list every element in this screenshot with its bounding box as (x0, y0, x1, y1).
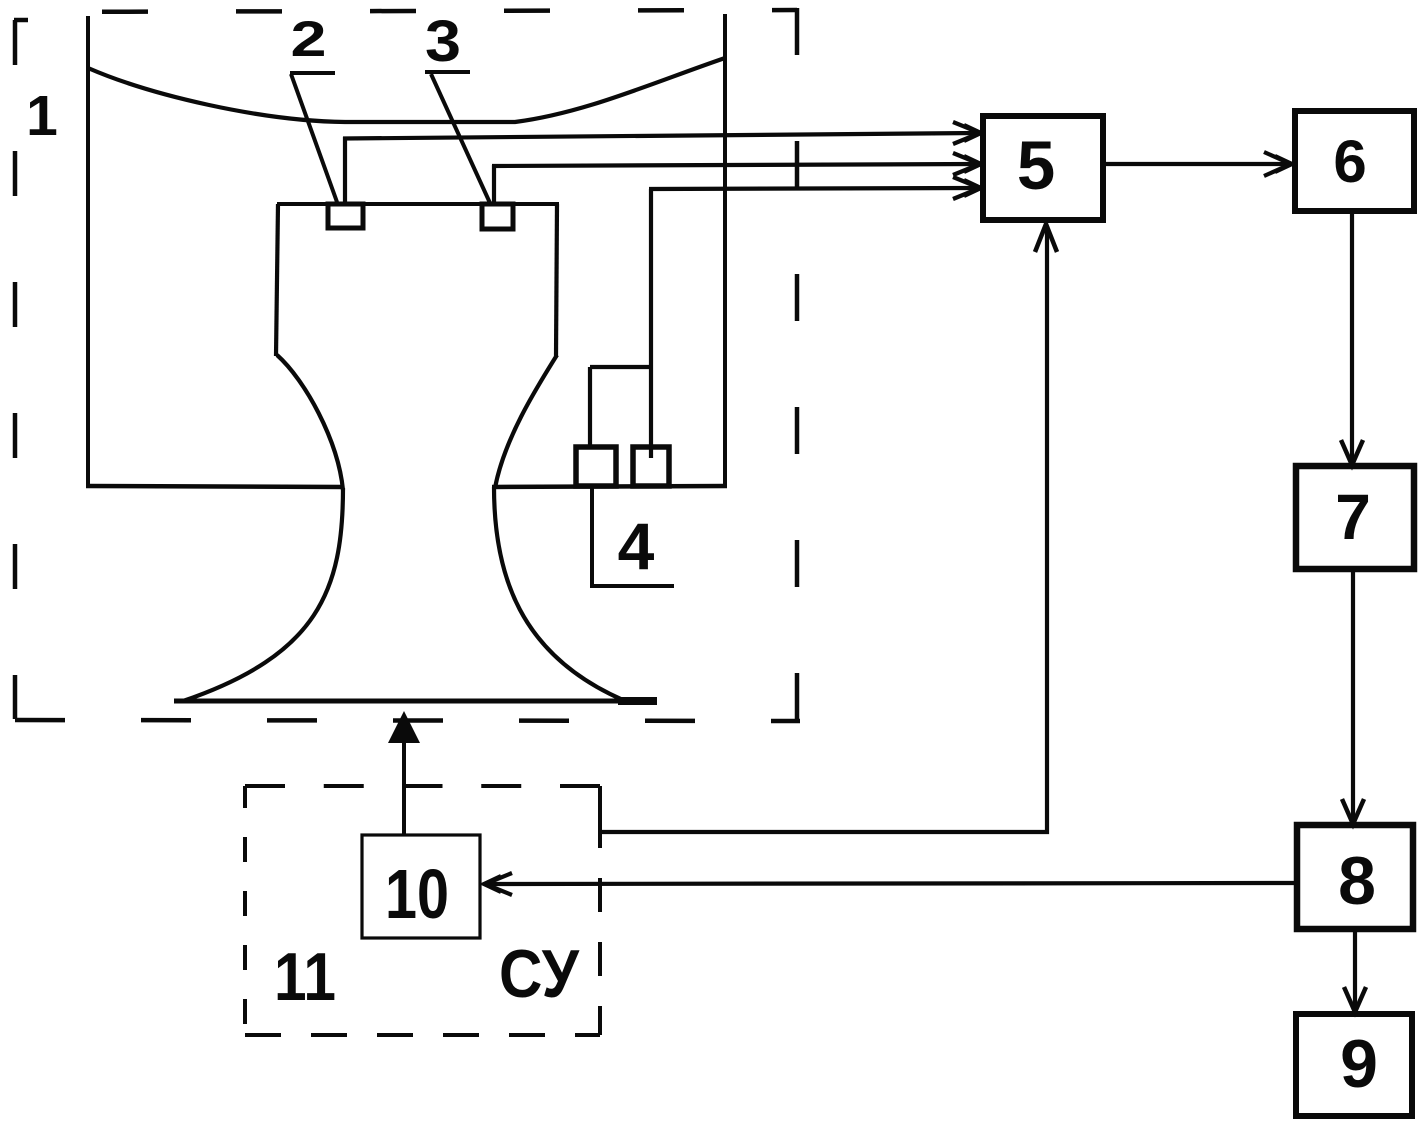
label 4 leader line (592, 487, 674, 586)
block 8 (1297, 825, 1413, 929)
arrowhead into block 10 (485, 873, 512, 895)
combustion chamber left wall (276, 204, 278, 356)
wire sensor unit 4 to block 5 (649, 188, 977, 189)
label 3 leader line (431, 74, 490, 203)
wire control unit 11 to block 5 (feedback) (600, 226, 1047, 832)
dashed control unit box 11 (245, 786, 600, 1035)
sensor unit 4 left square (576, 447, 616, 486)
svg-text:10: 10 (385, 855, 449, 933)
arrowhead into block 8 (1342, 799, 1364, 824)
combustion chamber right wall (556, 204, 557, 356)
svg-text:11: 11 (274, 939, 336, 1015)
svg-text:7: 7 (1335, 481, 1371, 553)
wire sensor 3 to block 5 (492, 164, 977, 166)
svg-text:8: 8 (1338, 843, 1376, 919)
block 6 (1295, 111, 1414, 211)
svg-text:9: 9 (1340, 1026, 1378, 1102)
sensor square 2 (328, 204, 363, 228)
wire block 5 to block 6 (1103, 162, 1288, 166)
engine dome curve (88, 58, 725, 122)
wire from sensor 3 riser (492, 165, 496, 204)
engine outer casing left wall (86, 16, 90, 487)
wire from sensor unit 4 riser (649, 189, 653, 458)
svg-text:3: 3 (425, 9, 461, 74)
nozzle bell right contour (494, 487, 623, 700)
block 10 (362, 835, 480, 938)
sensor unit 4 right square (633, 447, 669, 486)
wire block 8 to block 9 (1353, 929, 1357, 1010)
arrowhead into block 5 (top input) (953, 122, 980, 144)
engine casing bottom plate (right segment) (492, 486, 727, 487)
sensor unit 4 connector bracket (590, 365, 651, 369)
arrowhead into block 5 bottom (1035, 224, 1057, 252)
filled arrowhead to nozzle (388, 711, 420, 743)
wire block 8 to block 10 (488, 883, 1297, 884)
label 3 underline (425, 70, 470, 74)
arrowhead into block 7 (1341, 440, 1363, 465)
arrowhead into block 5 (middle input) (953, 153, 980, 175)
arrowhead into block 9 (1344, 987, 1366, 1012)
wire block 6 to block 7 (1350, 211, 1354, 463)
svg-text:4: 4 (618, 509, 655, 583)
label 2 leader line (291, 74, 337, 202)
svg-text:СУ: СУ (499, 936, 580, 1012)
wire block 7 to block 8 (1351, 569, 1355, 822)
block 9 (1296, 1014, 1412, 1116)
arrowhead into block 5 (bottom input) (953, 177, 980, 199)
label 2 underline (290, 71, 335, 75)
dashed enclosure box 1 (engine unit boundary) (14, 8, 800, 721)
wire from sensor 2 riser (343, 137, 347, 204)
wire sensor 2 to block 5 (343, 133, 977, 139)
block 5 (983, 116, 1103, 220)
nozzle exit plane right heavy end (618, 697, 657, 705)
nozzle exit plane (174, 699, 657, 704)
engine casing bottom plate (left segment) (86, 486, 344, 487)
nozzle converging left contour (277, 355, 343, 490)
block 7 (1296, 466, 1414, 569)
wire block 10 to nozzle actuator (402, 741, 406, 835)
nozzle converging right contour (495, 355, 557, 488)
svg-text:2: 2 (291, 11, 327, 67)
svg-text:5: 5 (1017, 127, 1055, 204)
engine outer casing right wall (723, 14, 727, 486)
arrowhead into block 6 (1264, 152, 1291, 176)
sensor square 3 (482, 204, 513, 229)
combustion chamber top edge (277, 202, 559, 206)
nozzle bell left contour (183, 488, 343, 701)
svg-text:6: 6 (1333, 128, 1366, 195)
svg-text:1: 1 (26, 84, 58, 148)
